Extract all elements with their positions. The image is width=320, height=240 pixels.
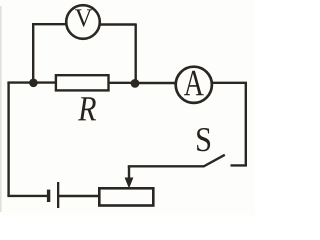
ammeter label A	[184, 71, 204, 96]
wire: right dot to ammeter	[134, 82, 177, 84]
ammeter circle	[176, 67, 212, 103]
rheostat box	[99, 188, 153, 205]
node: right junction dot	[131, 79, 140, 88]
wire: main horizontal left segment	[7, 81, 56, 83]
scan artifact: faint left edge line	[0, 6, 2, 212]
label S	[197, 128, 210, 151]
wire: voltmeter branch left vertical	[32, 23, 34, 82]
rheostat slider stem	[128, 166, 130, 180]
node: left junction dot	[29, 79, 38, 88]
battery: long thin plate (positive)	[57, 182, 59, 208]
wire: right vertical	[245, 83, 247, 167]
wire: slider to switch	[128, 165, 204, 167]
label R	[78, 97, 96, 120]
wire: bottom horizontal to battery	[7, 195, 48, 197]
wire: battery to rheostat	[59, 195, 99, 197]
voltmeter circle	[66, 5, 100, 39]
wire: voltmeter branch right vertical	[134, 24, 136, 83]
wire: resistor to right dot	[109, 82, 135, 84]
resistor R box	[56, 75, 109, 90]
voltmeter label V	[75, 9, 92, 26]
switch S blade (open)	[204, 155, 225, 167]
wire: left vertical	[7, 83, 9, 196]
wire: voltmeter branch right horizontal	[101, 23, 137, 25]
wire: voltmeter branch left horizontal	[32, 23, 66, 25]
wire: ammeter to right corner	[213, 82, 247, 84]
rheostat slider arrowhead	[125, 178, 134, 189]
battery: short thick plate (negative)	[47, 190, 50, 202]
switch right contact stub	[231, 164, 248, 166]
